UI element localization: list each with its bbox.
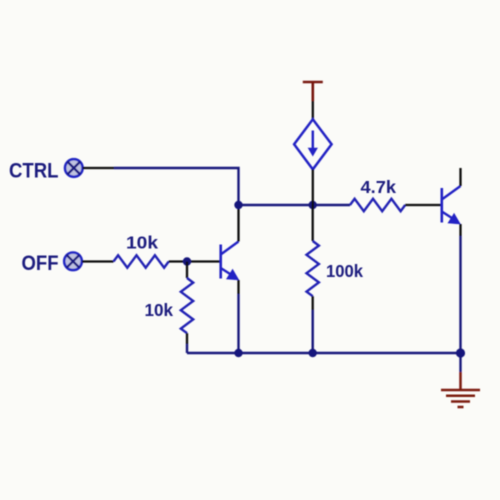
terminal port CTRL	[65, 159, 83, 177]
junction node at R1/R2/base	[183, 257, 191, 265]
svg-text:4.7k: 4.7k	[361, 177, 397, 197]
wire bottom rail	[187, 352, 461, 354]
wire R2 bottom to rail	[186, 333, 188, 344]
wire emitter to ground node	[459, 236, 461, 353]
resistor R3 100k vertical: pin stub	[312, 205, 314, 241]
terminal port OFF	[64, 252, 82, 270]
current source I1 (diamond with arrow)	[294, 119, 332, 169]
wire OFF pin stub	[82, 260, 114, 262]
svg-text:10k: 10k	[126, 233, 158, 253]
resistor R3 100k zigzag	[307, 241, 319, 296]
wire R1 to base node	[169, 260, 221, 262]
wire CTRL net to collector node	[114, 168, 239, 205]
svg-text:CTRL: CTRL	[9, 159, 59, 183]
junction node top center	[309, 201, 317, 209]
junction node rail/R3	[309, 349, 317, 357]
wire current source to node	[312, 169, 314, 205]
wire R3 bottom to rail	[312, 296, 314, 310]
svg-text:10k: 10k	[145, 300, 174, 320]
junction node rail/ground	[456, 348, 465, 357]
wire R4 to Q2 base	[405, 204, 442, 206]
wire Q1 collector stub up	[237, 205, 239, 242]
svg-text:100k: 100k	[326, 261, 363, 281]
resistor R1 10k horizontal	[114, 255, 169, 267]
ground	[441, 372, 480, 407]
wire emitter net to rail	[237, 294, 239, 353]
wire Q2 collector stub up (open)	[459, 168, 461, 186]
transistor Q1 (center NPN)	[221, 242, 240, 281]
wire power to current source	[312, 101, 314, 120]
wire node to ground stem	[459, 353, 461, 372]
transistor Q2 (right NPN)	[442, 186, 461, 224]
power symbol (vdd T)	[303, 82, 323, 101]
wire top net between nodes	[239, 204, 351, 206]
wire CTRL pin stub	[83, 167, 115, 169]
wire Q1 emitter stub down	[237, 280, 239, 294]
junction node rail/Q1 emitter	[234, 349, 242, 357]
resistor R2 10k vertical zigzag	[181, 278, 193, 333]
junction node collector/CTRL	[234, 201, 242, 209]
wire Q2 emitter stub down	[459, 224, 461, 236]
resistor R4 4.7k horizontal zigzag	[350, 199, 405, 211]
resistor R2 10k vertical: pin stub top	[186, 262, 188, 279]
svg-text:OFF: OFF	[22, 251, 59, 275]
